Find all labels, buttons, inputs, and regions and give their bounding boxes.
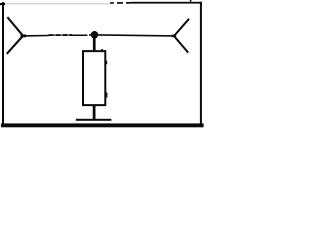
junction dot (node) [91, 31, 99, 39]
input terminal (left port) [7, 17, 26, 54]
resistor R1 (shunt to ground) [83, 49, 107, 105]
wire: junction to output terminal [97, 35, 174, 36]
output terminal (right port) [172, 19, 189, 53]
ground [76, 119, 112, 121]
wire: resistor R1 bottom to ground [93, 106, 96, 119]
wire: input terminal to junction [23, 34, 92, 37]
wire: junction to resistor R1 top [93, 37, 96, 51]
